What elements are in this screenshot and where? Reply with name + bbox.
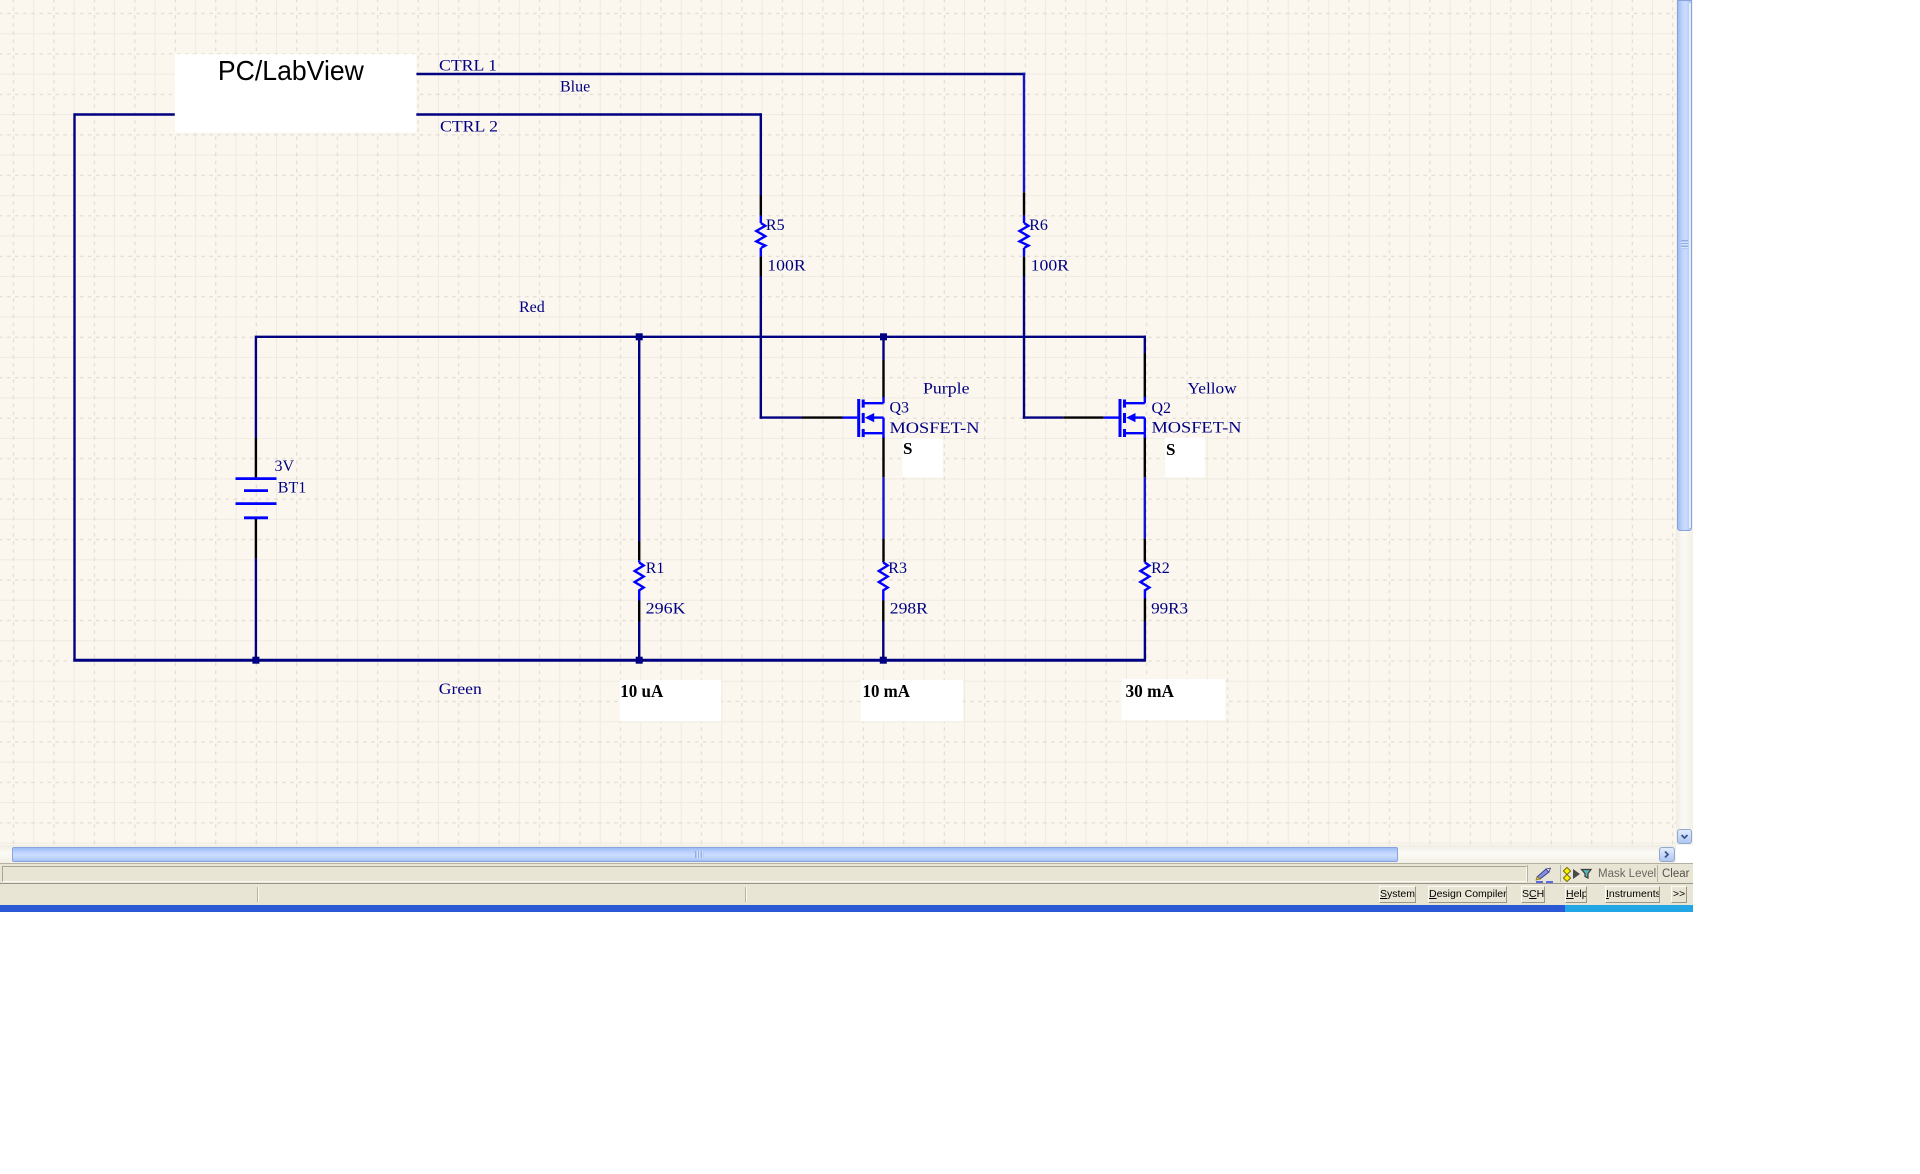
blue strip (0, 905, 1565, 912)
svg-text:Purple: Purple (923, 380, 970, 397)
svg-text:Q3: Q3 (890, 400, 910, 417)
wire Q2 drain black (1144, 354, 1146, 398)
wire R3 bottom black (882, 601, 884, 622)
toolbar row 1 (0, 863, 1693, 883)
svg-text:296K: 296K (646, 601, 686, 618)
Q3 S white box (903, 438, 943, 477)
node junction Q3 drain/Red rail (880, 333, 887, 340)
svg-text:Green: Green (439, 681, 482, 698)
resistor R3 (879, 562, 888, 601)
wire Q3 source black upper (882, 437, 884, 478)
svg-text:298R: 298R (890, 601, 928, 618)
svg-text:R1: R1 (646, 560, 665, 577)
10 uA white box (620, 680, 721, 721)
svg-text:CTRL 1: CTRL 1 (439, 57, 497, 74)
wire Q3 drain black (882, 360, 884, 398)
wire R5 lower black segment (760, 257, 762, 276)
wire R1 bottom navy (638, 622, 640, 662)
wire Q2 drain navy (from Red rail corner) (1144, 336, 1146, 354)
resistor R5 (756, 216, 765, 257)
node junction R1/bottom rail (636, 657, 643, 664)
wire Q2 source black upper (1144, 437, 1146, 478)
wire Q3 gate horizontal navy (760, 416, 802, 418)
schematic canvas (0, 0, 1676, 845)
wire Q3 source black lower (to R3) (882, 539, 884, 562)
resistor R6 (1020, 216, 1029, 257)
wire R3 bottom navy (882, 622, 884, 662)
wire Q2 gate horizontal navy (1023, 416, 1064, 418)
svg-text:30 mA: 30 mA (1126, 681, 1175, 701)
svg-text:Yellow: Yellow (1188, 381, 1238, 398)
wire Red rail horizontal (256, 336, 1146, 338)
vertical scrollbar (1676, 0, 1693, 845)
wire CTRL2 top horizontal (PC to R5 column) (75, 113, 761, 115)
svg-text:CTRL 2: CTRL 2 (440, 119, 498, 136)
wire Q2 source black lower (to R2) (1144, 539, 1146, 562)
wire R5 upper black segment (760, 196, 762, 216)
svg-text:R5: R5 (766, 217, 785, 234)
svg-text:Q2: Q2 (1152, 400, 1172, 417)
svg-text:10 uA: 10 uA (620, 681, 663, 701)
svg-text:10 mA: 10 mA (863, 681, 911, 701)
wire battery bottom navy (255, 558, 257, 661)
svg-text:Red: Red (519, 299, 545, 316)
svg-text:Blue: Blue (560, 79, 590, 96)
wire CTRL1 horizontal (416, 73, 1025, 75)
wire R1 top navy (638, 336, 640, 542)
PC/LabView white box (175, 54, 416, 132)
10 mA white box (861, 680, 963, 721)
wire R6 upper black segment (1023, 192, 1025, 215)
svg-text:MOSFET-N: MOSFET-N (890, 420, 981, 437)
svg-text:R3: R3 (888, 560, 907, 577)
svg-text:PC/LabView: PC/LabView (218, 55, 364, 86)
wire battery top navy (255, 336, 257, 438)
30 mA white box (1122, 679, 1226, 720)
svg-text:3V: 3V (275, 458, 295, 475)
wire R2 bottom black (1144, 599, 1146, 622)
Q2 S white box (1165, 438, 1205, 478)
battery BT1 (236, 479, 277, 518)
wire battery top black (255, 438, 257, 477)
node junction R3/bottom rail (880, 657, 887, 664)
wire R2 bottom navy (1144, 622, 1146, 662)
wire CTRL2 vertical to R5 (760, 113, 762, 195)
svg-text:R2: R2 (1151, 560, 1170, 577)
toolbar row 2 (0, 883, 1693, 905)
horizontal scrollbar (0, 845, 1676, 863)
wire R6 lower black segment (1023, 257, 1025, 276)
wire Q2 source blue middle (1144, 477, 1146, 538)
svg-text:99R3: 99R3 (1151, 601, 1188, 618)
svg-text:S: S (1166, 440, 1175, 459)
wire Q2 gate horizontal black (1063, 416, 1104, 418)
wire Q3 gate horizontal black (802, 416, 843, 418)
svg-text:100R: 100R (1031, 258, 1070, 275)
wire R1 bottom black (638, 601, 640, 622)
wire R1 top black (638, 542, 640, 561)
wire Q3 drain navy (882, 336, 884, 360)
wire CTRL1 vertical to R6 (1023, 73, 1025, 193)
wire R6 to gate corner vertical (1023, 276, 1025, 419)
wire battery bottom black (255, 519, 257, 558)
wire R5 to gate corner vertical (760, 276, 762, 419)
svg-text:100R: 100R (767, 258, 806, 275)
svg-text:MOSFET-N: MOSFET-N (1152, 420, 1243, 437)
resistor R2 (1140, 562, 1149, 599)
wire bottom rail (Green net) (73, 659, 1146, 662)
svg-text:R6: R6 (1029, 217, 1048, 234)
wire Q3 source blue middle (882, 477, 884, 538)
node junction R1/Red rail (636, 333, 643, 340)
resistor R1 (635, 560, 644, 600)
node junction battery/bottom rail (252, 657, 259, 664)
transistor Q3 (MOSFET-N) (843, 397, 884, 438)
svg-text:S: S (903, 439, 912, 458)
wire outer left vertical (73, 113, 75, 660)
transistor Q2 (MOSFET-N) (1104, 397, 1145, 438)
svg-text:BT1: BT1 (278, 480, 306, 497)
